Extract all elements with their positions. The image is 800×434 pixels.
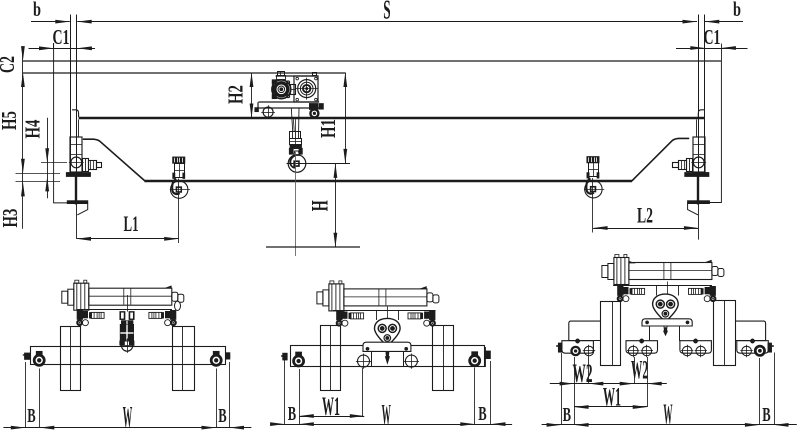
svg-text:H5: H5 xyxy=(0,111,21,130)
safety bracket left xyxy=(67,201,87,204)
svg-text:C1: C1 xyxy=(704,25,721,49)
view2 hook spike xyxy=(385,352,390,365)
view3 hook spike xyxy=(663,327,668,336)
view3 hook center rope xyxy=(667,282,669,295)
view3 hoist assembly xyxy=(602,255,724,285)
view1 hook block body xyxy=(122,321,133,325)
view3 drum left wedge xyxy=(629,261,636,264)
end truck wheel right xyxy=(693,157,704,168)
view2 dimension line B-W-B xyxy=(272,424,512,426)
hook level line xyxy=(287,163,351,165)
view3 bogie inner-right wheels xyxy=(682,346,692,356)
view3 bogie outer-right wheels xyxy=(742,346,752,356)
view3 bogie outer-left frame xyxy=(562,339,594,353)
girder end plate right xyxy=(696,120,698,138)
runway upper line xyxy=(23,60,721,62)
view2 girder section left xyxy=(321,326,341,391)
view3 extension lines xyxy=(561,353,563,425)
trolley eye bolt left xyxy=(278,72,285,76)
view1 beam end cap right xyxy=(226,353,230,359)
svg-text:W2: W2 xyxy=(573,359,593,388)
dimension H xyxy=(335,163,337,247)
arrow S right xyxy=(683,20,698,24)
view1 hook suspension straps xyxy=(120,312,125,320)
trolley wheel left xyxy=(263,107,273,117)
trolley buffer right xyxy=(319,104,323,110)
hoist motor xyxy=(272,80,291,99)
view2 center lifting plate xyxy=(363,342,411,351)
girder end outline left xyxy=(54,43,68,203)
svg-text:W1: W1 xyxy=(603,383,621,412)
view2 hook center rope xyxy=(387,307,389,319)
arrow b left xyxy=(55,20,70,24)
trolley eye bolt right xyxy=(313,73,317,76)
view2 end wheel left xyxy=(293,352,305,367)
dimension line C1 right xyxy=(676,48,748,50)
view2 beam end plate right xyxy=(484,347,486,367)
extension line girder underside xyxy=(16,181,61,183)
view3 bogie outer-left cap xyxy=(558,343,562,352)
svg-text:H2: H2 xyxy=(224,85,248,104)
svg-text:L2: L2 xyxy=(637,203,653,228)
view3 support bar xyxy=(613,285,712,287)
view1 girder section left xyxy=(61,327,81,391)
svg-text:b: b xyxy=(733,0,741,21)
girder end taper right xyxy=(632,138,689,181)
svg-text:C2: C2 xyxy=(0,56,19,73)
view3 dimension line W2 pair xyxy=(550,383,667,385)
svg-text:W2: W2 xyxy=(631,356,648,385)
rail bottom flange left xyxy=(66,173,90,177)
dimension H1 xyxy=(345,73,347,164)
view1 dimension line B-W-B xyxy=(3,427,251,429)
view3 center lifting plate xyxy=(642,319,692,326)
safety bracket right xyxy=(688,201,710,204)
view2 buffer right xyxy=(485,351,491,359)
travel drive left xyxy=(83,159,89,172)
view3 bogie outer-left wheels xyxy=(571,346,581,356)
svg-text:H: H xyxy=(308,200,333,211)
view1 end wheel left xyxy=(33,351,45,366)
suspension shaft right xyxy=(697,176,699,204)
girder end plate left xyxy=(78,120,80,138)
arrow S left xyxy=(77,20,92,24)
view3 girder section right xyxy=(714,301,736,366)
view3 bogie inner-left frame xyxy=(626,339,658,353)
svg-text:B: B xyxy=(563,404,571,426)
svg-text:W: W xyxy=(663,400,672,431)
end truck left xyxy=(70,137,82,172)
svg-text:C1: C1 xyxy=(53,25,70,49)
hoist coupling xyxy=(291,85,296,95)
hook block cap xyxy=(290,145,302,148)
dimension H2 xyxy=(251,73,253,119)
dimension line C2-H5-H3 vertical xyxy=(22,50,24,229)
arrow C2 top xyxy=(21,46,25,61)
end truck right xyxy=(693,137,705,172)
extension line phantom hook right xyxy=(592,178,594,232)
view3 hook hangers xyxy=(656,286,658,296)
hook block sheave case xyxy=(290,132,301,139)
view1 extension lines xyxy=(25,362,27,428)
view1 support bar xyxy=(77,309,172,311)
view3 inner hanger right xyxy=(679,326,681,341)
end truck wheel left xyxy=(71,157,82,168)
hook shackle xyxy=(294,151,299,155)
extension line phantom hook left xyxy=(178,179,180,244)
view2 hook block xyxy=(375,318,401,351)
phantom hook left (L1 position) xyxy=(173,157,185,163)
view2 hoist support cluster right xyxy=(408,311,436,326)
svg-text:B: B xyxy=(27,405,35,427)
view3 suspension arm right xyxy=(736,321,766,341)
girder end outline right xyxy=(709,61,721,203)
dimension line C1 left xyxy=(29,48,96,50)
view2 end carriage beam xyxy=(291,346,485,367)
girder bottom flange xyxy=(145,180,633,183)
svg-text:b: b xyxy=(33,0,41,21)
floor line xyxy=(266,246,360,248)
view1 hook ring xyxy=(122,340,133,351)
view2 girder section right xyxy=(433,326,454,391)
rail bottom flange right xyxy=(685,173,709,177)
view1 beam end cap left xyxy=(25,353,31,359)
view2 hoist assembly xyxy=(317,281,439,311)
trolley wheel bracket right xyxy=(310,104,318,110)
hook centerline xyxy=(295,152,297,256)
view1 hoist support cluster left xyxy=(77,310,105,325)
runway rail web left xyxy=(70,15,72,173)
view1 hook bottom caps xyxy=(120,341,125,345)
svg-text:L1: L1 xyxy=(124,211,139,236)
view2 dimension line W1 xyxy=(299,416,364,418)
view3 dimension line B-W-B xyxy=(542,424,797,426)
view3 bogie inner-right frame xyxy=(680,339,712,353)
hoist gearbox xyxy=(294,76,318,102)
svg-text:W: W xyxy=(123,401,133,434)
view3 bogie outer-right cap xyxy=(768,343,772,352)
view3 bogie outer-right frame xyxy=(737,339,769,353)
girder top end step right xyxy=(698,110,705,117)
view2 support bar xyxy=(333,310,435,312)
svg-text:H1: H1 xyxy=(316,119,340,138)
runway rail web right xyxy=(698,15,700,173)
extension line L2 right xyxy=(698,205,700,240)
trolley buffer left xyxy=(255,108,259,112)
view1 hanging link xyxy=(175,301,181,310)
view2 beam end cap left xyxy=(283,353,288,360)
view3 dimension line W1 xyxy=(574,406,647,408)
trolley wheel right xyxy=(310,109,319,118)
hook travel limit tick left xyxy=(53,43,55,48)
view1 hoist support cluster right xyxy=(149,310,177,325)
view3 hoist support cluster right xyxy=(689,286,717,301)
view2 inner wheel right xyxy=(405,355,417,367)
dimension line H4 vertical xyxy=(47,118,49,199)
arrow H5 bottom xyxy=(21,159,25,174)
arrow b right xyxy=(705,20,720,24)
svg-text:B: B xyxy=(288,403,296,425)
travel drive right xyxy=(687,159,693,172)
view1 girder section right xyxy=(173,327,195,391)
view2 extension lines xyxy=(284,353,286,424)
view2 end wheel right xyxy=(469,352,481,367)
view3 bogie inner-left wheels xyxy=(628,346,638,356)
svg-text:B: B xyxy=(478,403,486,425)
view1 hoist assembly xyxy=(62,280,184,310)
svg-text:B: B xyxy=(218,405,226,427)
extension line wheel axle left xyxy=(41,162,67,164)
runway lower line xyxy=(23,72,345,74)
girder top end step left xyxy=(72,110,79,117)
extension line rail flange top xyxy=(16,173,61,175)
extension line L1 left xyxy=(76,205,78,239)
view2 inner wheel left xyxy=(358,355,370,367)
dimension line b-S-b (top) xyxy=(31,21,70,23)
view3 girder section left xyxy=(601,302,621,366)
girder top flange xyxy=(79,117,705,120)
dimension L1 xyxy=(77,238,179,240)
svg-text:S: S xyxy=(383,0,390,24)
arrow C2 bottom / H5 top xyxy=(21,73,25,88)
svg-text:H3: H3 xyxy=(0,209,22,228)
view1 end carriage beam xyxy=(31,347,226,365)
view1 end wheel right xyxy=(210,351,222,366)
view3 hoist support cluster left xyxy=(617,286,645,301)
hoist trolley top frame xyxy=(276,75,319,77)
svg-text:H4: H4 xyxy=(21,119,45,138)
trolley frame xyxy=(258,101,319,103)
view2 hoist support cluster left xyxy=(336,311,364,326)
svg-text:W1: W1 xyxy=(322,392,340,421)
hoist ropes xyxy=(291,108,292,131)
hook travel limit tick right xyxy=(721,44,723,61)
phantom hook right (L2 position) xyxy=(587,157,599,163)
svg-text:W: W xyxy=(382,400,391,431)
view2 hook hangers xyxy=(376,310,378,320)
dimension L2 xyxy=(593,228,698,230)
view3 inner hanger left xyxy=(649,326,651,341)
suspension shaft left xyxy=(75,176,77,204)
arrow H3 top xyxy=(21,182,25,197)
girder end taper left xyxy=(83,139,145,181)
view1 hook center rope xyxy=(127,295,129,312)
view3 suspension arm left xyxy=(569,321,600,341)
view3 hook block xyxy=(653,294,679,327)
svg-text:B: B xyxy=(762,404,770,426)
hook xyxy=(288,155,306,173)
